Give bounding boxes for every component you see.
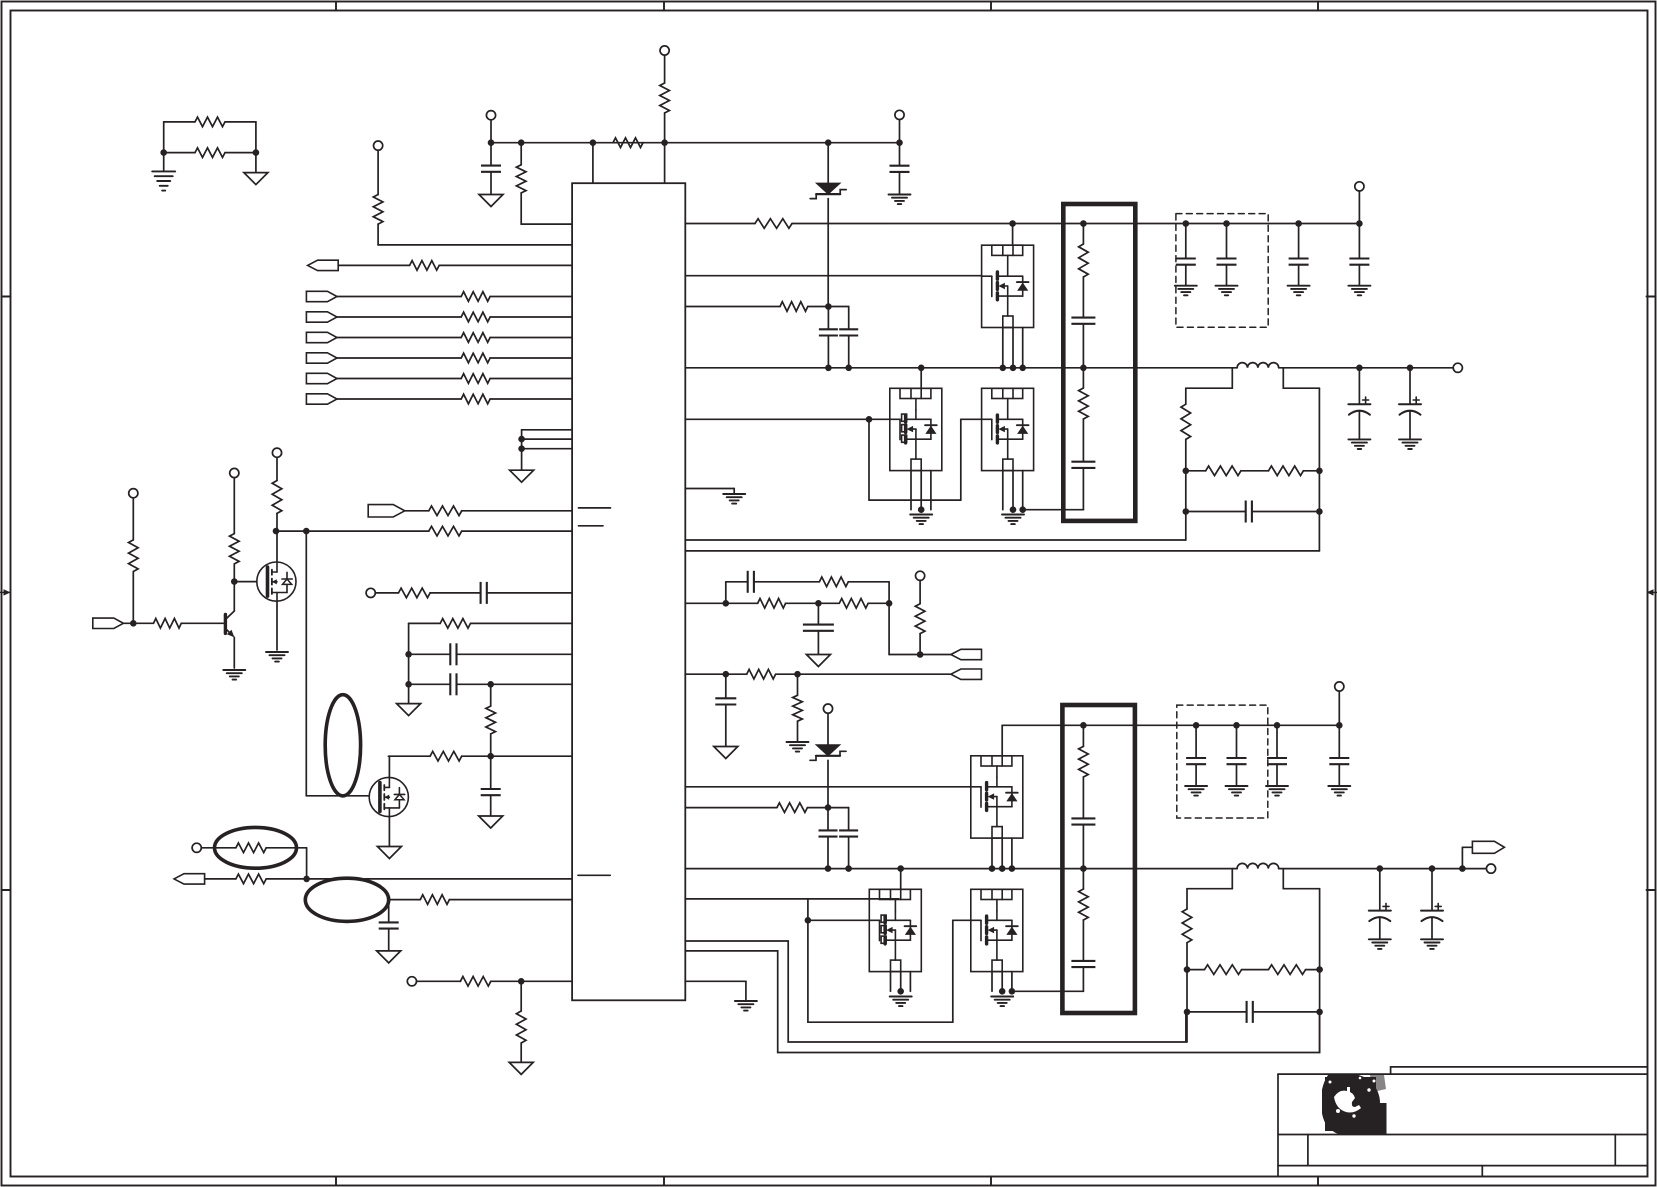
wire [490,120,492,143]
wire [1431,917,1433,939]
earth ground [266,651,288,653]
wire [817,631,819,655]
junction [1316,1009,1323,1016]
capacitor C25 [1329,758,1349,764]
wire [276,453,278,481]
resistor R39 [793,695,803,721]
resistor R12 [461,374,490,384]
wire [1082,224,1084,245]
capacitor C6 [481,789,501,795]
junction [1183,220,1190,227]
wire [685,980,746,982]
earth ground [1266,785,1288,787]
junction [886,600,893,607]
capacitor C23 [1227,758,1247,764]
earth ground [889,194,911,196]
wire [733,489,735,495]
resistor R26 [420,895,449,905]
wire [991,972,993,992]
wire [405,510,429,512]
wire [490,684,492,706]
wire [1186,889,1188,909]
junction [825,139,832,146]
wire [961,418,982,420]
junction [918,365,925,372]
wire [786,602,840,604]
wire [1358,368,1360,404]
wire [685,418,890,420]
wire [685,951,1319,1053]
wire [408,623,410,703]
power ground [479,816,503,828]
capacitor C26 [1247,1001,1253,1023]
net flag output [1472,841,1504,853]
net flag signal 3 [306,332,337,342]
terminal pin [1335,682,1344,691]
optional capacitor group box [1177,705,1268,818]
wire [1283,888,1319,890]
wire [490,378,572,380]
junction [1233,722,1240,729]
earth ground [1328,785,1350,787]
wire [1306,969,1320,971]
IC internal pin mark [579,507,611,509]
wire [1012,328,1014,368]
wire [490,143,492,166]
junction [917,651,924,658]
frame zone tick top [335,2,337,11]
wire [337,296,461,298]
junction [487,681,494,688]
controller IC U1 [572,183,685,1000]
wire [462,755,572,757]
wire [685,367,1237,369]
junction [825,303,832,310]
net flag signal 1 [306,291,337,301]
wire [1082,368,1084,388]
resistor R24 [236,843,266,853]
capacitor C5 [450,673,456,695]
resistor R20 [129,540,139,572]
wire [1002,724,1339,726]
wire [919,634,921,655]
junction [487,753,494,760]
wire [1195,725,1197,758]
capacitor C13 [1349,259,1369,265]
junction [918,506,925,513]
wire [1279,367,1454,369]
wire [462,530,572,532]
resistor R18 [486,706,496,734]
wire [1241,470,1269,472]
resistor R8 [461,292,490,302]
wire [900,972,902,992]
wire [1082,777,1084,818]
junction [1009,865,1016,872]
net flag input [93,618,124,628]
earth ground [1399,438,1421,440]
capacitor C14 [1246,501,1252,523]
wire [1082,920,1084,961]
junction [1009,988,1016,995]
wire [1185,388,1187,404]
junction [303,528,310,535]
wire [797,721,799,741]
wire [1431,869,1433,911]
inductor L2 [1237,863,1279,868]
resistor R16 [399,588,431,598]
net flag feedback [951,669,982,679]
junction [1295,220,1302,227]
earth ground [1348,438,1370,440]
zener diode D2 [816,745,840,756]
wire [1379,917,1381,939]
junction [1019,506,1026,513]
wire [276,513,278,562]
wire [1022,328,1024,368]
net flag input [308,260,339,270]
wire [462,510,572,512]
wire [1082,419,1084,462]
capacitor C12 [1289,259,1309,265]
power ground [377,951,401,963]
wire [919,580,921,603]
wire [520,193,522,224]
winding capacitor [1071,961,1095,967]
wire [1002,328,1004,368]
wire [490,316,572,318]
wire [377,150,379,194]
resistor R15 [429,526,462,536]
wire [1082,967,1084,991]
resistor R43 [1269,965,1306,975]
wire [726,581,748,583]
capacitor C9 [839,329,858,335]
wire [234,581,256,583]
resistor R32 [1206,466,1241,476]
junction [1080,722,1087,729]
frame zone tick left [2,296,11,298]
wire [1319,889,1321,1053]
wire [725,705,727,747]
wire [417,980,461,982]
wire [1186,387,1233,389]
wire [487,592,572,594]
markup ellipse 2 [215,827,297,868]
capacitor C18 [803,625,834,631]
junction [1316,468,1323,475]
wire [1185,439,1187,540]
wire [1011,972,1013,992]
wire [899,143,901,166]
junction [825,365,832,372]
transistor Q3 [257,562,296,601]
power ground [377,847,401,859]
wire [754,581,820,583]
net flag input [174,874,205,884]
junction [1193,722,1200,729]
wire [890,972,892,992]
capacitor C22 [1186,758,1206,764]
wire [1338,725,1340,758]
resistor R27 [460,977,490,987]
wire [685,673,746,675]
resistor R6 [373,195,383,225]
IC internal pin mark [579,525,604,527]
winding capacitor [1071,462,1095,468]
wire [132,498,134,540]
wire [685,786,971,788]
wire [337,316,461,318]
wire [490,172,492,195]
wire [797,674,799,695]
net flag signal 4 [306,353,337,363]
wire [1186,943,1188,1042]
junction [1459,865,1466,872]
junction [1429,865,1436,872]
wire [1011,838,1013,869]
capacitor C24 [1267,758,1287,764]
junction [1407,365,1414,372]
earth ground [1002,514,1024,516]
junction [1336,722,1343,729]
frame zone tick bottom [335,1177,337,1186]
wire [1002,471,1004,510]
net flag signal 2 [306,312,337,322]
capacitor C8 [819,329,838,335]
earth ground [1369,938,1391,940]
wire [685,488,734,490]
resistor R25 [236,874,266,884]
resistor R23 [272,481,282,514]
wire [827,143,829,183]
junction [405,681,412,688]
wire [457,683,573,685]
resistor R35 [839,599,868,609]
earth ground [152,170,175,172]
capacitor C2 [890,166,910,172]
wire [827,713,829,745]
junction [1183,468,1190,475]
junction [273,528,280,535]
resistor R38 [747,669,776,679]
transistor Q1 [225,611,234,637]
resistor R11 [461,353,490,363]
resistor R21 [154,619,182,629]
wire [1023,509,1084,511]
capacitor C11 [1217,259,1237,265]
wire [1082,468,1084,510]
wire [991,838,993,869]
junction [1223,220,1230,227]
wire [725,582,727,604]
wire [1276,764,1278,786]
junction [518,139,525,146]
resistor R19 [430,751,462,761]
resistor R14 [429,506,462,516]
wire [337,398,461,400]
net flag [368,505,405,517]
wire [869,499,961,501]
resistor R37 [915,604,925,634]
zener diode D1 [816,183,840,194]
wire [491,980,572,982]
wire [1012,224,1014,246]
junction [1184,1009,1191,1016]
junction [897,865,904,872]
earth ground [723,493,745,495]
wire [123,622,153,624]
junction [989,865,996,872]
winding capacitor [1071,818,1095,824]
wire [1187,1011,1247,1013]
resistor R33 [1269,466,1304,476]
junction [1080,220,1087,227]
wire [471,622,573,624]
wire [378,244,572,246]
wire [808,306,849,308]
wire [664,113,666,143]
winding resistance [1079,746,1089,777]
wire [868,602,889,604]
earth ground [787,741,809,743]
junction [488,139,495,146]
wire [1001,972,1003,992]
wire [808,919,869,921]
wire [225,121,256,123]
earth ground [890,996,912,998]
wire [685,868,1237,870]
resistor R4 [613,138,643,148]
junction [518,978,525,985]
junction [405,651,412,658]
wire [409,653,451,655]
wire [685,539,1186,541]
wire [664,55,666,83]
power ground [510,470,534,482]
wire [827,336,829,368]
resistor R31 [1181,404,1191,439]
junction [231,578,238,585]
title block [1278,1067,1648,1177]
wire [1282,368,1284,388]
wire [521,223,572,225]
wire [132,572,134,624]
junction [1316,966,1323,973]
wire [1358,224,1360,259]
wire [233,478,235,534]
junction [999,865,1006,872]
wire [1185,265,1187,286]
terminal pin output [1453,363,1462,372]
wire [592,143,594,184]
wire [449,899,572,901]
wire [1012,471,1014,510]
junction [1316,508,1323,515]
wire [306,795,369,797]
wire [848,307,850,330]
junction [815,600,822,607]
MOSFET module Q7 [971,756,1023,838]
wire [1358,191,1360,224]
wire [1195,764,1197,786]
junction [794,671,801,678]
capacitor C7 [379,922,399,928]
wire [490,756,492,789]
wire [1226,224,1228,259]
earth ground [735,1000,757,1002]
wire [181,622,223,624]
junction [805,917,812,924]
wire [1358,265,1360,286]
terminal pin VCC [486,111,495,120]
terminal pin [895,110,904,119]
wire [1298,265,1300,286]
wire [1185,224,1187,259]
wire [899,120,901,143]
wire [439,264,572,266]
wire [1001,838,1003,869]
wire [1298,224,1300,259]
wire [910,471,912,510]
electrolytic capacitor C16 [1413,399,1419,401]
wire [305,531,307,796]
resistor R10 [461,333,490,343]
junction [160,149,167,156]
wire [1082,725,1084,746]
net flag signal 6 [306,394,337,404]
wire [520,143,522,165]
wire [276,530,429,532]
wire [685,275,981,277]
wire [338,264,409,266]
wire [164,152,195,154]
wire [1231,368,1233,388]
net flag signal 5 [306,373,337,383]
transformer T2 [1062,705,1135,1013]
wire [1022,471,1024,510]
wire [848,808,850,831]
wire [792,223,1359,225]
junction [1080,865,1087,872]
junction [723,600,730,607]
wire [827,808,829,831]
power ground [806,655,830,667]
wire [266,878,572,880]
wire [1012,990,1084,992]
capacitor C21 [839,830,858,836]
wire [1338,691,1340,725]
wire [337,378,461,380]
wire [827,307,829,330]
wire [521,430,523,470]
wire [1082,869,1084,889]
wire [900,869,902,890]
resistor R29 [755,219,792,229]
terminal pin [192,843,201,852]
resistor R36 [819,577,848,587]
earth ground [1288,285,1310,287]
wire [899,172,901,195]
resistor R9 [461,312,490,322]
power ground [244,173,268,185]
net flag feedback [951,649,982,659]
winding resistance [1079,388,1089,419]
junction [1183,508,1190,515]
wire [1082,277,1084,318]
wire [888,603,890,654]
wire [490,795,492,816]
